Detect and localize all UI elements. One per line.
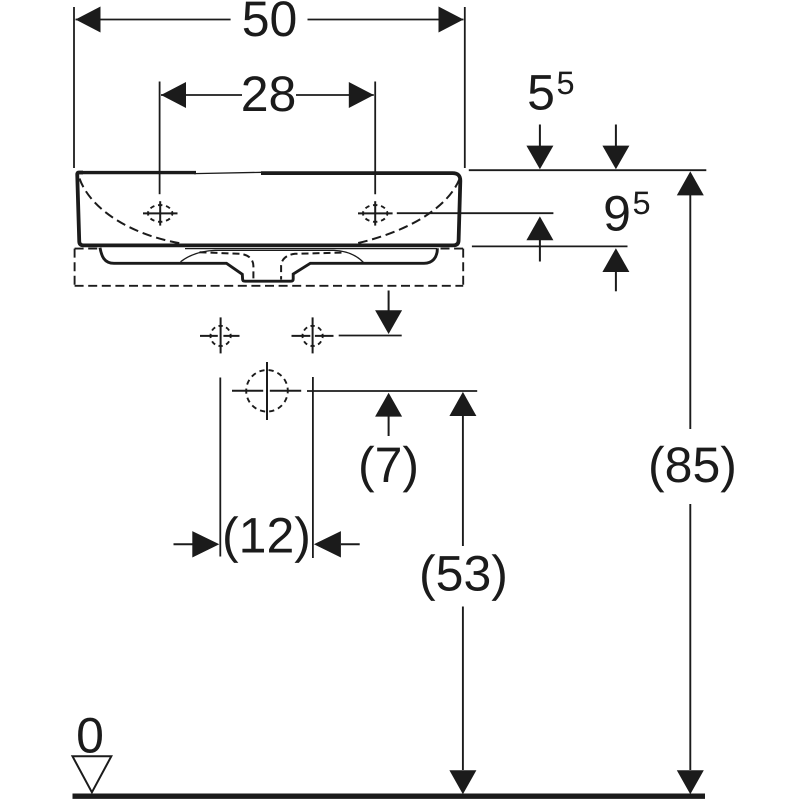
dimension 28 right arrow	[349, 82, 374, 108]
dimension 5.5 upper arrow	[526, 146, 553, 170]
dimension 53 line lower segment	[462, 607, 464, 771]
fixing hole right dashed circle	[303, 326, 323, 346]
svg-text:9: 9	[603, 186, 631, 242]
fixing hole left horizontal centerline	[200, 335, 218, 337]
dimension 12 left extension line	[219, 378, 221, 557]
svg-text:28: 28	[241, 66, 297, 122]
reference line basin underside level	[472, 245, 628, 247]
fixing hole right horizontal centerline	[292, 335, 311, 337]
mounting box dashed rectangle bottom edge	[75, 285, 464, 287]
dimension 7 lower arrow	[375, 393, 402, 417]
dimension 12 right arrow	[314, 531, 341, 557]
drain hole dashed circle	[246, 370, 288, 412]
dimension 12 right extension line	[312, 377, 314, 558]
svg-text:5: 5	[527, 64, 555, 120]
basin inner bowl hidden contour left	[80, 179, 181, 244]
svg-text:(85): (85)	[648, 437, 737, 493]
reference line fixing hole level	[339, 335, 402, 337]
dimension 50 left arrow	[76, 7, 101, 33]
dimension 9.5 upper arrow stem	[615, 125, 617, 148]
reference line rim level (5.5 / 9.5 upper)	[469, 169, 707, 171]
dimension 9.5 upper arrow	[602, 146, 629, 170]
svg-text:5: 5	[633, 185, 651, 221]
siphon hidden dashed contour left	[200, 252, 254, 279]
tap hole left dashed circle	[148, 205, 172, 222]
tap hole right vertical centerline	[374, 201, 376, 225]
mounting box dashed rectangle right edge	[462, 249, 464, 286]
dimension 50 line left segment	[76, 19, 231, 21]
tap hole left vertical centerline	[159, 201, 161, 225]
dimension 50 right arrow	[439, 7, 464, 33]
dimension 7 lower arrow stem	[388, 416, 390, 436]
dimension 7 upper arrow stem	[388, 291, 390, 312]
dimension 53 top arrow	[449, 392, 476, 416]
dimension 50 line right segment	[308, 19, 464, 21]
mounting box dashed rectangle top edge right visible part	[441, 248, 464, 250]
dimension 7 upper arrow	[375, 310, 402, 334]
dimension 5.5 lower arrow stem	[539, 240, 541, 262]
dimension 12 right arrow stem	[341, 543, 360, 545]
flange inner thin contour	[181, 250, 364, 262]
basin outline left edge bottom and right edge	[77, 173, 460, 246]
mounting box dashed rectangle left edge	[74, 249, 76, 286]
tap hole right dashed circle	[363, 205, 387, 222]
reference line tap hole level	[397, 212, 554, 214]
dimension 50 left extension line	[73, 7, 75, 168]
siphon hidden dashed contour right	[281, 253, 341, 280]
fixing hole left dashed circle	[211, 326, 231, 346]
dimension 28 line right segment	[296, 94, 374, 96]
svg-text:(53): (53)	[419, 546, 508, 602]
dimension 9.5 lower arrow	[602, 248, 629, 272]
dimension 53 bottom arrow	[449, 770, 476, 794]
dimension 5.5 lower arrow	[526, 216, 553, 240]
drain hole vertical centerline	[266, 362, 268, 420]
tap hole right horizontal centerline	[358, 212, 393, 214]
fixing hole right vertical centerline	[312, 317, 314, 353]
dimension 85 top arrow	[677, 171, 704, 195]
flange top thin line	[185, 248, 437, 250]
floor baseline	[73, 794, 706, 799]
drain hole horizontal centerline	[232, 390, 263, 392]
dimension 28 left extension line	[159, 82, 161, 195]
dimension 5.5 upper arrow stem	[539, 125, 541, 148]
dimension 9.5 lower arrow stem	[615, 272, 617, 291]
svg-text:(12): (12)	[222, 508, 311, 564]
basin inner bowl hidden contour right	[357, 179, 460, 243]
basin top rim thin front edge	[194, 172, 263, 173]
dimension 12 left arrow	[192, 531, 219, 557]
svg-text:(7): (7)	[358, 437, 419, 493]
dimension 85 line upper segment	[689, 195, 691, 429]
svg-text:5: 5	[557, 65, 575, 101]
dimension 28 right extension line	[374, 82, 376, 195]
dimension 50 right extension line	[464, 7, 466, 168]
dimension 28 left arrow	[161, 82, 186, 108]
dimension 85 bottom arrow	[677, 770, 704, 794]
svg-text:50: 50	[242, 0, 298, 47]
mounting box dashed rectangle top edge left visible part	[75, 248, 100, 250]
dimension 85 line lower segment	[689, 504, 691, 770]
flange under basin thick outline with siphon recess	[100, 248, 437, 281]
reference line drain level	[307, 390, 477, 392]
dimension 28 line left segment	[161, 94, 242, 96]
dimension 12 left arrow stem	[174, 543, 194, 545]
fixing hole left vertical centerline	[220, 317, 222, 353]
svg-text:0: 0	[76, 708, 104, 764]
datum triangle	[73, 756, 112, 792]
dimension 53 line upper segment	[462, 416, 464, 546]
tap hole left horizontal centerline	[143, 212, 178, 214]
